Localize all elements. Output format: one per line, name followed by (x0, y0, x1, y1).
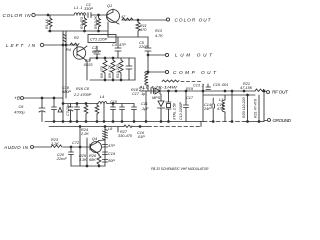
svg-text:+B: +B (14, 96, 20, 101)
svg-text:AUDIO IN: AUDIO IN (3, 145, 29, 150)
svg-text:Q4: Q4 (92, 137, 97, 141)
svg-text:Q1: Q1 (107, 4, 112, 8)
svg-text:C10: C10 (110, 100, 118, 104)
svg-text:330P: 330P (84, 7, 93, 11)
svg-text:47P: 47P (108, 144, 115, 148)
svg-text:LEFT IN: LEFT IN (6, 43, 36, 48)
svg-text:LUM OUT: LUM OUT (175, 53, 213, 58)
svg-text:COMP OUT: COMP OUT (173, 70, 217, 75)
svg-text:4.3K: 4.3K (79, 158, 87, 162)
svg-text:C12 2200P: C12 2200P (179, 101, 183, 120)
svg-text:R5 2.2K: R5 2.2K (94, 15, 98, 29)
svg-text:47-15K: 47-15K (240, 86, 253, 90)
svg-text:L1 .1: L1 .1 (74, 6, 82, 10)
svg-text:R10 220: R10 220 (116, 64, 120, 78)
svg-text:R9 4.7K: R9 4.7K (108, 64, 112, 78)
svg-text:2.2 4700P: 2.2 4700P (73, 93, 92, 97)
svg-text:R2: R2 (74, 36, 80, 40)
svg-text:R4: R4 (66, 48, 71, 52)
svg-text:470: 470 (140, 28, 147, 32)
svg-text:GROUND: GROUND (273, 118, 292, 123)
svg-text:C11: C11 (141, 102, 148, 106)
svg-text:24P: 24P (203, 107, 211, 111)
svg-text:2.2K: 2.2K (50, 142, 59, 146)
svg-text:C19: C19 (108, 152, 116, 156)
svg-text:4700μ: 4700μ (14, 111, 25, 115)
svg-text:R16 C8: R16 C8 (76, 87, 90, 91)
svg-text:MPS: MPS (152, 96, 161, 100)
svg-text:220P: 220P (138, 45, 148, 49)
svg-text:4.7K: 4.7K (155, 34, 163, 38)
svg-text:330-470: 330-470 (118, 134, 133, 138)
svg-text:.22mF: .22mF (56, 157, 67, 161)
svg-text:.1μF: .1μF (141, 107, 149, 111)
svg-text:XTAL 3.58: XTAL 3.58 (173, 103, 177, 121)
svg-text:C4: C4 (112, 43, 117, 47)
svg-text:C17 .1μ: C17 .1μ (132, 92, 146, 96)
svg-text:L3: L3 (219, 98, 224, 102)
svg-text:C13 .1: C13 .1 (193, 84, 204, 88)
svg-text:.0033: .0033 (83, 63, 93, 67)
svg-text:680P: 680P (62, 90, 71, 94)
svg-text:FB-33 SCHEMATIC VHF MODULATOR: FB-33 SCHEMATIC VHF MODULATOR (151, 167, 209, 171)
svg-text:CT1 220P: CT1 220P (90, 38, 108, 42)
svg-text:47: 47 (121, 15, 126, 19)
svg-text:50P: 50P (108, 159, 115, 163)
svg-text:680P: 680P (92, 50, 101, 54)
svg-text:R21 47-470: R21 47-470 (254, 99, 258, 118)
svg-text:R13: R13 (155, 29, 163, 33)
svg-text:R1 1K: R1 1K (45, 18, 49, 29)
svg-text:68K: 68K (89, 158, 96, 162)
svg-text:COLOR OUT: COLOR OUT (175, 17, 212, 22)
svg-text:C17: C17 (186, 96, 194, 100)
svg-text:.01P: .01P (137, 135, 145, 139)
svg-text:R19: R19 (186, 87, 194, 91)
svg-text:47P: 47P (217, 107, 224, 111)
svg-text:C15 .001: C15 .001 (213, 83, 228, 87)
svg-text:CT2: CT2 (72, 141, 80, 145)
svg-text:R8 470: R8 470 (100, 66, 104, 78)
svg-text:COLOR IN: COLOR IN (3, 13, 32, 18)
svg-text:47P: 47P (119, 43, 126, 47)
svg-text:R3 470: R3 470 (80, 17, 84, 29)
svg-text:R20 110-220: R20 110-220 (242, 97, 246, 118)
svg-text:RF OUT: RF OUT (272, 90, 289, 95)
svg-text:2.2K: 2.2K (80, 132, 89, 136)
svg-text:C7 22μ: C7 22μ (66, 104, 70, 116)
svg-text:L8: L8 (108, 127, 113, 131)
svg-text:C6: C6 (19, 105, 25, 109)
svg-text:L4: L4 (100, 95, 104, 99)
